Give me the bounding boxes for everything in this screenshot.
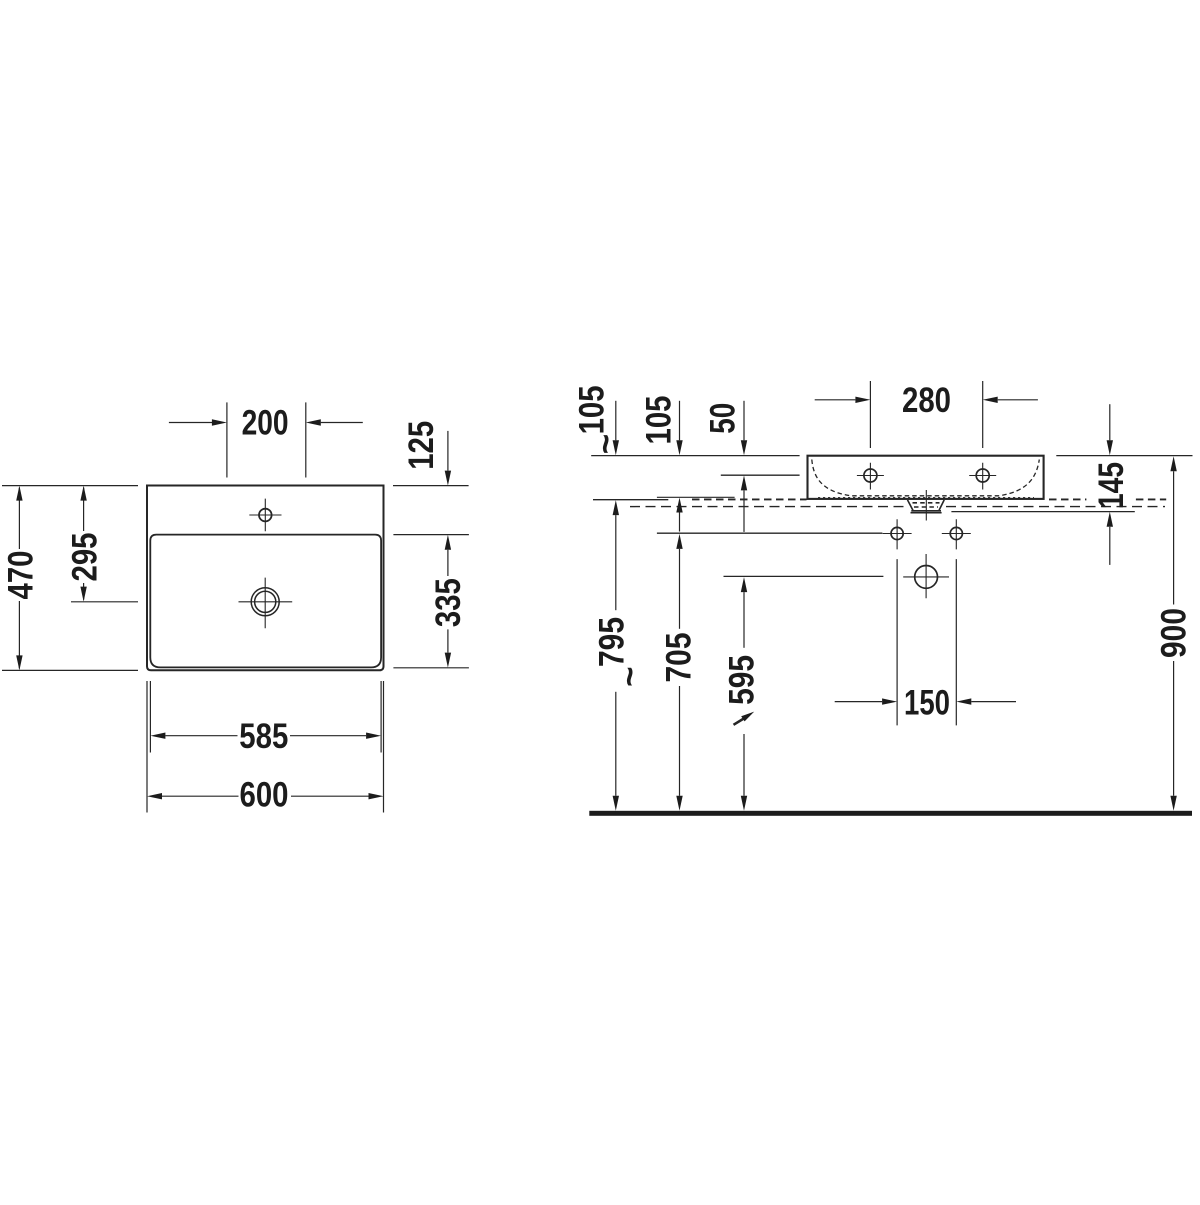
- hidden bottom edge dashes: [692, 498, 807, 500]
- dimension 200: [169, 402, 363, 477]
- bowl bottom hidden line: [818, 496, 1034, 498]
- svg-text:795: 795: [592, 617, 631, 667]
- dimension 150: [835, 559, 1016, 725]
- fixing hole right: [942, 519, 971, 549]
- dimension 50: [743, 401, 745, 441]
- svg-text:900: 900: [1155, 608, 1194, 658]
- wall rim line left: [591, 455, 799, 457]
- drain trap under basin: [908, 500, 945, 513]
- svg-text:600: 600: [240, 775, 289, 814]
- underside reference line (105): [657, 496, 735, 498]
- svg-text:280: 280: [902, 381, 951, 420]
- faucet hole (plan): [249, 499, 281, 532]
- wall rim line right: [1056, 455, 1192, 457]
- dimension 595: [741, 577, 747, 592]
- fixing hole left: [883, 519, 912, 549]
- basin outer outline (plan): [147, 486, 384, 671]
- svg-text:200: 200: [242, 404, 289, 443]
- dimension 470: [2, 486, 138, 671]
- dimension 145: [1109, 404, 1111, 440]
- dimension ~795: [613, 500, 619, 515]
- inner bowl hidden contour (dashed): [812, 460, 1040, 496]
- svg-text:295: 295: [66, 533, 105, 582]
- drain pipe (elevation): [903, 554, 949, 598]
- dimension 125: [393, 431, 469, 535]
- faucet hole right (elevation): [969, 463, 996, 490]
- tap level reference line (50): [721, 474, 800, 476]
- svg-text:125: 125: [402, 421, 441, 470]
- svg-text:105: 105: [640, 396, 679, 445]
- drain hole (plan): [239, 578, 293, 629]
- dimension 900: [1170, 456, 1176, 471]
- svg-text:705: 705: [659, 633, 698, 683]
- fixing holes reference line (705): [657, 532, 883, 534]
- svg-text:105: 105: [573, 385, 612, 434]
- floor line: [589, 811, 1192, 816]
- trap centre line: [925, 490, 927, 521]
- dimension 585: [150, 681, 381, 753]
- mounting reference line (~795): [593, 499, 668, 501]
- faucet hole left (elevation): [857, 463, 884, 490]
- basin body (elevation): [808, 456, 1044, 499]
- basin inner bowl (plan): [150, 535, 381, 668]
- dimension 335: [393, 550, 469, 668]
- svg-text:470: 470: [1, 551, 40, 600]
- svg-text:585: 585: [239, 717, 288, 756]
- dimension 600: [147, 681, 384, 813]
- svg-text:150: 150: [904, 683, 950, 722]
- dimension 705: [676, 534, 682, 549]
- svg-text:50: 50: [704, 403, 743, 434]
- svg-text:335: 335: [429, 578, 468, 627]
- trap bottom reference line (145): [951, 511, 1134, 513]
- svg-text:145: 145: [1092, 462, 1131, 509]
- dimension 280: [815, 381, 1038, 448]
- svg-text:~: ~: [610, 666, 649, 686]
- dimension ~105: [615, 401, 617, 441]
- svg-text:~: ~: [587, 434, 626, 454]
- drain reference line (595): [724, 575, 884, 577]
- svg-text:595: 595: [722, 655, 761, 705]
- dimension 105: [679, 401, 681, 441]
- 595 leader arrow: [734, 718, 745, 724]
- long dashed installation line: [630, 506, 906, 508]
- dimension 295: [71, 488, 138, 602]
